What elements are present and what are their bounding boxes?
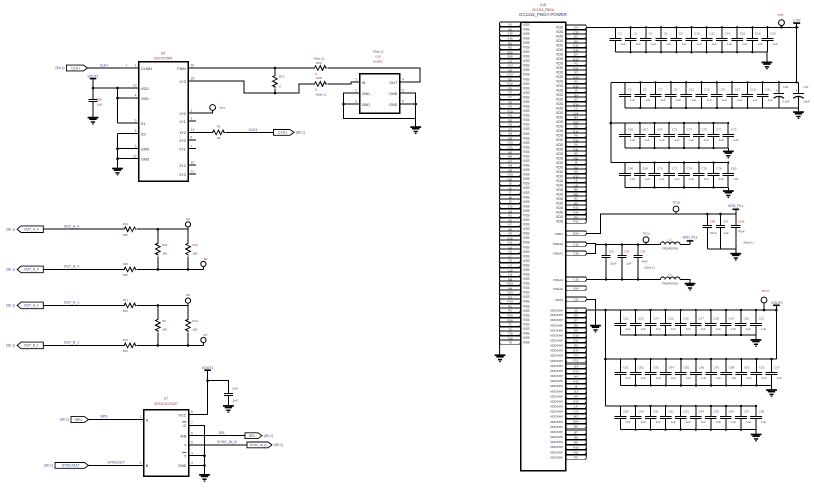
U1B VDD pin F14 [566, 66, 587, 70]
U1B VDDSHV pin N11 [566, 450, 587, 454]
svg-text:9: 9 [135, 119, 137, 123]
U1B VDDSHV pin L13 [566, 409, 587, 413]
U1B VSS pin B2 [500, 45, 521, 49]
svg-text:VDDSHV: VDDSHV [550, 410, 564, 414]
U1B VSS pin K6 [500, 218, 521, 222]
svg-text:SEL: SEL [249, 434, 256, 438]
wire 1.2V top rail [586, 26, 798, 28]
svg-text:.1uF: .1uF [736, 98, 742, 102]
svg-text:.1uF: .1uF [690, 98, 696, 102]
svg-text:VSS: VSS [523, 64, 530, 68]
terminal R8 [185, 293, 190, 305]
svg-text:VSS: VSS [523, 100, 530, 104]
svg-text:F6: F6 [508, 90, 512, 94]
capacitor C92 [660, 405, 676, 431]
svg-text:N9: N9 [574, 440, 578, 444]
svg-text:1: 1 [140, 415, 142, 419]
svg-text:.1uF: .1uF [644, 138, 650, 142]
U1B VSS pin B1 [500, 41, 521, 45]
capacitor C66 [88, 100, 97, 102]
svg-text:SYNCOUT: SYNCOUT [62, 464, 80, 468]
svg-text:N6: N6 [574, 424, 578, 428]
svg-text:.1uF: .1uF [625, 420, 631, 424]
U1B VDD pin J11 [566, 165, 587, 169]
svg-text:VSS: VSS [523, 114, 530, 118]
U5 pin 11 2Y3 [179, 170, 196, 177]
capacitor C92 [736, 358, 752, 387]
svg-text:J6: J6 [574, 160, 577, 164]
svg-text:K11: K11 [508, 240, 513, 244]
svg-text:.01uF: .01uF [709, 231, 716, 235]
wire VOUT1 to C66 [92, 79, 94, 99]
wire VDD_PLL caps bottom rail [707, 248, 736, 250]
svg-text:C86: C86 [699, 366, 705, 370]
svg-text:A15: A15 [508, 31, 514, 35]
svg-text:(Sh.1): (Sh.1) [6, 268, 15, 272]
svg-text:VSSA2: VSSA2 [553, 287, 563, 291]
svg-text:GND: GND [362, 103, 371, 107]
svg-text:C6: C6 [664, 32, 668, 36]
ground (C66) [88, 118, 99, 124]
svg-text:U10: U10 [375, 55, 381, 59]
U1B VDD pin H11 [566, 156, 587, 160]
svg-text:10uF: 10uF [803, 100, 810, 104]
svg-text:.1uF: .1uF [730, 376, 736, 380]
U1B VSS pin B15 [500, 50, 521, 54]
U1B VDD pin P13 [566, 219, 587, 223]
U1B VDD pin L3 [566, 106, 587, 110]
ground (bank5) [751, 340, 762, 346]
junction bank3 rail [610, 122, 613, 125]
capacitor C94 [690, 405, 706, 431]
U1B VSS pin D13 [500, 72, 521, 76]
capacitor C93 [751, 358, 767, 387]
U1B VDDA2 pin C12 [566, 242, 587, 246]
ground (L2) [685, 284, 696, 290]
svg-text:K5: K5 [508, 213, 512, 217]
svg-text:C24: C24 [653, 317, 659, 321]
svg-text:VDD: VDD [556, 192, 564, 196]
capacitor C3 [619, 82, 635, 108]
svg-text:C96: C96 [729, 410, 735, 414]
svg-text:VDDSHV: VDDSHV [550, 374, 564, 378]
svg-text:VSS: VSS [523, 173, 530, 177]
svg-text:VDD: VDD [556, 174, 564, 178]
capacitor C11 [680, 81, 696, 109]
svg-text:R28: R28 [316, 76, 322, 80]
terminal R7 [201, 333, 208, 346]
terminal R4 [185, 217, 190, 229]
U1B VSS pin H5 [500, 150, 521, 154]
U10 pin 3 GND [351, 100, 370, 107]
svg-text:VSS: VSS [523, 259, 530, 263]
svg-text:B14: B14 [573, 231, 579, 235]
svg-text:(Note 1): (Note 1) [316, 92, 327, 96]
svg-text:H3: H3 [574, 79, 578, 83]
svg-text:VDDSHV: VDDSHV [550, 349, 564, 353]
wire VDD bus (right) [585, 27, 587, 221]
junction [763, 309, 766, 312]
svg-text:11: 11 [191, 170, 195, 174]
svg-text:VDD: VDD [141, 87, 149, 91]
svg-text:C19: C19 [750, 88, 756, 92]
U1B VDD pin J3 [566, 88, 587, 92]
svg-text:C61: C61 [609, 250, 615, 254]
svg-text:VSS: VSS [523, 41, 530, 45]
svg-text:VSS: VSS [523, 32, 530, 36]
svg-text:E14: E14 [573, 348, 579, 352]
resistor R28 [314, 82, 327, 87]
svg-text:M12: M12 [507, 281, 513, 285]
wire bank6 top rail [605, 358, 776, 360]
wire bank5 bottom rail [621, 334, 757, 336]
U1B VSS pin L5 [500, 245, 521, 249]
capacitor C8 [671, 26, 687, 53]
svg-text:C14: C14 [507, 63, 513, 67]
capacitor C96 [720, 405, 736, 431]
svg-text:L9: L9 [508, 263, 512, 267]
junction [203, 464, 206, 467]
wire R26 to termination [137, 268, 203, 270]
svg-text:VDD: VDD [556, 107, 564, 111]
U1B VSS pin D4 [500, 68, 521, 72]
svg-text:C73: C73 [687, 128, 693, 132]
U1B VSS pin C14 [500, 63, 521, 67]
svg-text:VSS: VSS [523, 136, 530, 140]
svg-text:L6: L6 [508, 249, 512, 253]
U1B VDD pin L11 [566, 183, 587, 187]
svg-text:VSS: VSS [523, 214, 530, 218]
svg-text:VSS: VSS [523, 336, 530, 340]
svg-text:VSS: VSS [523, 127, 530, 131]
svg-text:VSS: VSS [523, 150, 530, 154]
svg-text:C20: C20 [770, 32, 776, 36]
U1B VDDSHV pin E3 [566, 343, 587, 347]
U1B VDD pin H14 [566, 84, 587, 88]
svg-text:165: 165 [123, 309, 128, 313]
svg-text:.1uF: .1uF [620, 42, 626, 46]
wire VDDSHV bus (right) [585, 310, 587, 457]
svg-text:1: 1 [126, 63, 128, 67]
wire VOUT1 right bus [775, 310, 777, 359]
svg-text:1Y3: 1Y3 [179, 80, 186, 84]
svg-text:140: 140 [162, 252, 167, 256]
svg-text:C80: C80 [731, 167, 737, 171]
U1B VDDSHV pin H13 [566, 379, 587, 383]
svg-text:VDDSHV: VDDSHV [550, 359, 564, 363]
svg-text:7: 7 [191, 144, 193, 148]
capacitor C77 [708, 122, 724, 149]
U1B VSS pin M12 [500, 281, 521, 285]
svg-text:L4: L4 [574, 404, 578, 408]
U1B VSS pin R16 [500, 318, 521, 322]
svg-text:VSS: VSS [523, 273, 530, 277]
svg-text:L3: L3 [574, 106, 578, 110]
power flag VOUT1 (U7) [202, 366, 214, 370]
capacitor C74 [678, 161, 694, 188]
svg-text:GND: GND [389, 92, 398, 96]
svg-text:.1uF: .1uF [688, 177, 694, 181]
svg-text:VSS: VSS [523, 86, 530, 90]
svg-text:165: 165 [123, 233, 128, 237]
svg-text:.1uF: .1uF [757, 42, 763, 46]
svg-text:E3: E3 [574, 343, 578, 347]
U1B VSS pin T15 [500, 331, 521, 335]
U7 pin 8 VCC [179, 410, 197, 417]
wire to GND pin12 [118, 158, 132, 160]
svg-text:VDD: VDD [556, 80, 564, 84]
svg-text:CLK1: CLK1 [278, 131, 287, 135]
svg-text:OUT_B_0: OUT_B_0 [64, 265, 80, 269]
svg-text:VSS: VSS [523, 300, 530, 304]
svg-text:VDD: VDD [556, 183, 564, 187]
ground (U5) [112, 169, 123, 175]
resistor R12 [273, 75, 278, 88]
svg-text:G8: G8 [508, 131, 512, 135]
svg-text:R29: R29 [316, 61, 322, 65]
capacitor C83 [645, 358, 661, 387]
svg-text:VDD: VDD [556, 138, 564, 142]
svg-text:VDD: VDD [556, 75, 564, 79]
output tag SEL (Sh.1) [245, 433, 273, 439]
svg-text:N3: N3 [574, 196, 578, 200]
wire to R2 [157, 305, 159, 318]
svg-text:G3: G3 [574, 70, 578, 74]
svg-text:.1uF: .1uF [721, 98, 727, 102]
U1B VSS pin B16 [500, 54, 521, 58]
capacitor C19 [742, 81, 758, 109]
svg-text:A14: A14 [573, 286, 579, 290]
svg-text:C1: C1 [618, 32, 622, 36]
wire U7 VCC to VOUT1 [197, 370, 208, 415]
resistor R26 [123, 267, 136, 272]
wire bank7 bottom rail [621, 429, 757, 431]
svg-text:U5: U5 [161, 52, 165, 56]
svg-text:GND: GND [178, 464, 187, 468]
wire 1Y3 to R28 [196, 81, 314, 93]
svg-text:VDD: VDD [556, 120, 564, 124]
U1B VSS pin G7 [500, 127, 521, 131]
svg-text:C5: C5 [574, 308, 578, 312]
svg-text:S2: S2 [141, 132, 146, 136]
U1B VSS pin T16 [500, 336, 521, 340]
svg-text:VDD: VDD [556, 156, 564, 160]
capacitor C97 [716, 214, 729, 249]
svg-text:C21: C21 [765, 88, 771, 92]
svg-text:C89: C89 [623, 410, 629, 414]
svg-text:VSS: VSS [523, 123, 530, 127]
svg-text:.1uF: .1uF [660, 98, 666, 102]
test point TP13 [642, 231, 650, 242]
inductor L2 [660, 273, 680, 286]
svg-text:VSS: VSS [523, 177, 530, 181]
U1B VSS pin R1 [500, 304, 521, 308]
svg-text:VDD: VDD [556, 102, 564, 106]
resistor R1 [212, 130, 225, 135]
svg-text:VOUT1: VOUT1 [87, 74, 98, 78]
svg-text:VDDA1: VDDA1 [553, 252, 564, 256]
capacitor C93 [675, 405, 691, 431]
capacitor C30 [735, 309, 751, 336]
svg-text:.1uF: .1uF [700, 376, 706, 380]
U1B VDD pin G11 [566, 147, 587, 151]
svg-text:22: 22 [217, 136, 221, 140]
svg-text:VDD: VDD [556, 93, 564, 97]
svg-text:L11: L11 [508, 272, 513, 276]
capacitor C85 [675, 358, 691, 387]
svg-text:C67: C67 [642, 128, 648, 132]
svg-text:R27: R27 [123, 338, 129, 342]
U1B VDD pin C13 [566, 30, 587, 34]
svg-text:VSS: VSS [523, 77, 530, 81]
svg-text:C81: C81 [623, 366, 629, 370]
wire U7 Ybar strap [197, 455, 205, 457]
svg-text:IN: IN [362, 81, 366, 85]
wire C68 to ground [227, 396, 229, 406]
svg-text:VDDSHV: VDDSHV [550, 394, 564, 398]
U1B VSS pin L7 [500, 254, 521, 258]
svg-text:C93: C93 [759, 366, 765, 370]
U1B VDDSHV pin N6 [566, 424, 587, 428]
svg-text:G10: G10 [507, 140, 513, 144]
wire TP5 stub [781, 26, 783, 28]
U1B VDD pin L14 [566, 111, 587, 115]
svg-text:VDD: VDD [556, 161, 564, 165]
svg-text:VSS: VSS [523, 141, 530, 145]
svg-text:15: 15 [191, 77, 195, 81]
svg-text:.1uF: .1uF [626, 262, 632, 266]
svg-text:C40: C40 [783, 85, 789, 89]
svg-text:.1uF: .1uF [644, 177, 650, 181]
junction top [157, 228, 160, 231]
svg-text:C66: C66 [628, 167, 634, 171]
test point TP14 [761, 289, 769, 303]
svg-text:C18: C18 [755, 32, 761, 36]
svg-text:L2: L2 [668, 273, 672, 277]
U1B VDD pin F6 [566, 133, 587, 137]
wire VDD strap vertical [117, 88, 119, 123]
wire to GND pin5 [118, 148, 132, 150]
svg-text:VDD: VDD [556, 201, 564, 205]
U7 pin 4 GND [178, 461, 196, 468]
svg-text:G11: G11 [507, 145, 513, 149]
wire OUT_A_1 to R17 [43, 304, 123, 306]
svg-text:VSS: VSS [523, 159, 530, 163]
wire bank3 to ground [727, 148, 729, 151]
U1B VSS pin K8 [500, 227, 521, 231]
svg-text:C13: C13 [704, 88, 710, 92]
svg-text:VDDSHV: VDDSHV [550, 405, 564, 409]
svg-text:C98: C98 [759, 410, 765, 414]
wire bank5 top rail (VDDSHV) [586, 309, 776, 311]
U1B VSS pin L11 [500, 272, 521, 276]
svg-text:R1: R1 [217, 125, 221, 129]
svg-text:F7: F7 [508, 95, 512, 99]
U1B VSS pin T2 [500, 327, 521, 331]
wire bank4 bottom rail [625, 187, 728, 189]
svg-text:F6: F6 [574, 133, 578, 137]
svg-text:F13: F13 [573, 358, 578, 362]
wire R12 bottom stub [274, 89, 276, 94]
svg-text:F3: F3 [574, 61, 578, 65]
wire U10 GND3 strap [344, 103, 352, 105]
oscillator U10 body [360, 50, 400, 113]
capacitor C21 [757, 81, 773, 108]
U5 pin 4 VDD [131, 94, 149, 101]
U5 pin 9 S1 [131, 119, 146, 126]
svg-text:C78: C78 [716, 167, 722, 171]
svg-text:.1uF: .1uF [685, 327, 691, 331]
svg-text:VDDSHV: VDDSHV [550, 384, 564, 388]
svg-text:10: 10 [191, 161, 195, 165]
junction [719, 213, 722, 216]
ground (VDD_PLL caps) [730, 254, 741, 260]
resistor R11 [156, 242, 161, 255]
capacitor C99 [703, 214, 717, 249]
svg-text:2: 2 [191, 109, 193, 113]
svg-text:.1uF: .1uF [655, 420, 661, 424]
svg-text:C95: C95 [714, 410, 720, 414]
svg-text:C15: C15 [573, 277, 579, 281]
svg-text:(Sh.1): (Sh.1) [60, 418, 69, 422]
wire R17 to termination [137, 304, 188, 306]
svg-text:VDDSHV: VDDSHV [550, 333, 564, 337]
svg-text:C97: C97 [744, 410, 750, 414]
svg-text:CLK+: CLK+ [100, 63, 109, 67]
svg-text:M6: M6 [574, 187, 578, 191]
svg-text:.1uF: .1uF [629, 138, 635, 142]
U1B VDDSHV pin M14 [566, 419, 587, 423]
capacitor C17 [726, 81, 742, 109]
svg-text:C60: C60 [624, 250, 630, 254]
U10 pin 5 GND [389, 89, 408, 96]
svg-text:.1uF: .1uF [745, 327, 751, 331]
U5 pin 13 VDD [131, 84, 149, 91]
U1B VDDSHV pin F4 [566, 353, 587, 357]
svg-text:VSS: VSS [523, 195, 530, 199]
ground (C68) [223, 406, 234, 412]
svg-text:.1uF: .1uF [625, 327, 631, 331]
svg-text:.1uF: .1uF [726, 42, 732, 46]
capacitor C9 [665, 81, 681, 109]
svg-text:(Note 1): (Note 1) [644, 265, 654, 269]
ground (VSS bus) [495, 355, 506, 361]
svg-text:.1uF: .1uF [665, 42, 671, 46]
wire 1Y2 to R1 [196, 131, 212, 133]
svg-text:VSS: VSS [523, 341, 530, 345]
U1B VDD pin N12 [566, 205, 587, 209]
svg-text:VSS: VSS [523, 313, 530, 317]
svg-text:U1B: U1B [540, 3, 546, 7]
svg-text:VSS: VSS [523, 145, 530, 149]
svg-text:.1uF: .1uF [730, 420, 736, 424]
svg-text:5: 5 [135, 144, 137, 148]
U10 pin 6 GND [389, 100, 408, 107]
wire bank3 bottom rail [625, 147, 728, 149]
svg-text:C9: C9 [674, 88, 678, 92]
capacitor C62 [633, 243, 648, 280]
wire OUT_B_0 to R26 [43, 268, 123, 270]
input tag CLK+ (Sh.1) [56, 65, 88, 71]
svg-text:VSS: VSS [523, 291, 530, 295]
svg-text:C100: C100 [738, 219, 745, 223]
svg-text:+: + [795, 89, 797, 93]
U1B VSS pin J8 [500, 195, 521, 199]
svg-text:.1uF: .1uF [723, 231, 729, 235]
wire VDD_PLL cap rail [707, 213, 736, 215]
U1B VSS pin K7 [500, 222, 521, 226]
wire to ground (VDD_PLL caps) [735, 249, 737, 253]
